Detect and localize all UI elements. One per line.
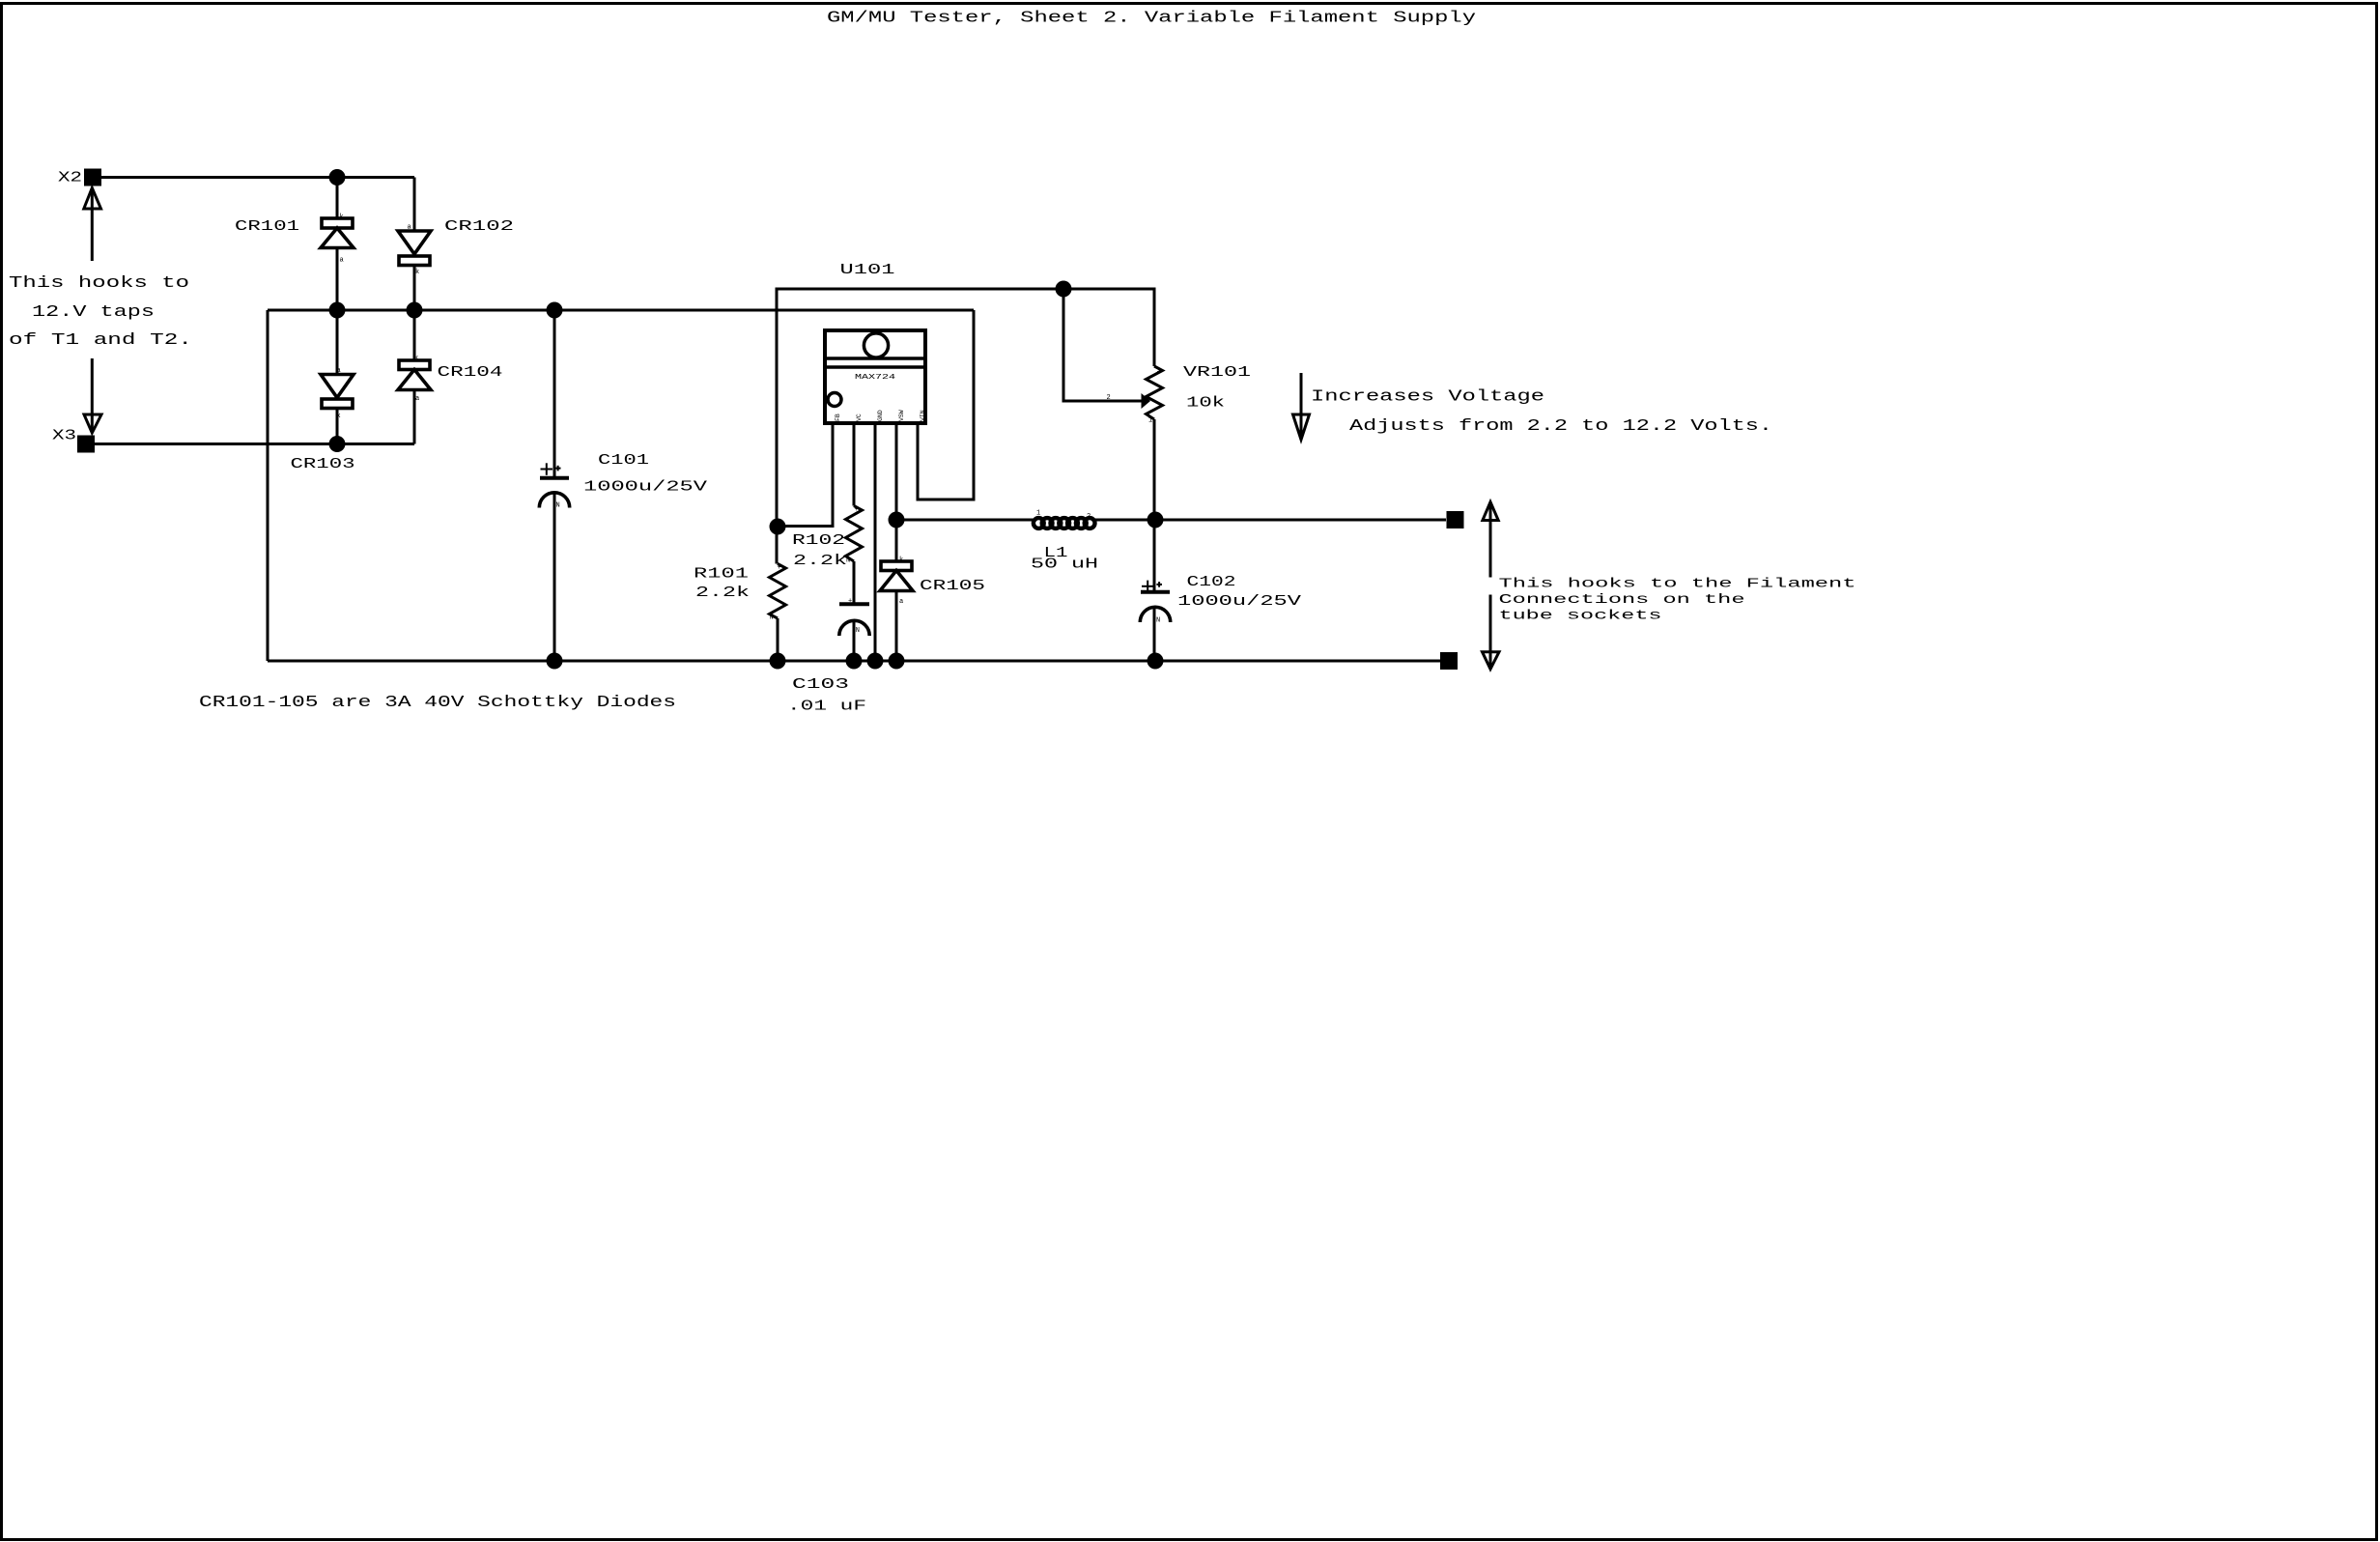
capacitor C103 (839, 604, 869, 636)
wire CR103 to X3 rail (336, 409, 339, 444)
wire U101 pin 2 lead (853, 423, 856, 506)
svg-text:1000u/25V: 1000u/25V (583, 479, 707, 496)
wire C101 bottom lead (553, 493, 556, 662)
svg-text:k: k (899, 557, 903, 564)
wire left drop to ground rail (267, 310, 269, 661)
svg-text:Adjusts from 2.2 to 12.2 Volts: Adjusts from 2.2 to 12.2 Volts. (1349, 417, 1772, 436)
wire CR101 to mid rail (336, 248, 339, 311)
svg-text:10k: 10k (1186, 395, 1225, 412)
U101 mounting hole (864, 333, 888, 357)
terminal output top (1447, 511, 1464, 528)
wire C101 top lead (553, 310, 556, 477)
svg-text:CR102: CR102 (444, 218, 514, 235)
wire U101 pin 4 to switch node (895, 423, 898, 561)
svg-text:1: 1 (1148, 417, 1152, 425)
svg-text:+: + (848, 598, 852, 606)
capacitor C101 (539, 478, 569, 508)
wire X3 rail (95, 443, 414, 445)
wire R102 to C103 (853, 561, 856, 603)
U101 pin 1 indicator circle (828, 393, 841, 407)
polarity plus marks (C101) (541, 463, 561, 475)
junction switch node (889, 512, 905, 528)
junction output node (1147, 512, 1164, 528)
diode CR102 (398, 231, 431, 266)
svg-text:k: k (415, 269, 419, 276)
svg-text:GND: GND (877, 410, 884, 421)
svg-text:2.2k: 2.2k (695, 585, 750, 601)
svg-text:N: N (856, 627, 860, 635)
svg-text:tube sockets: tube sockets (1499, 609, 1662, 624)
potentiometer VR101 (1147, 366, 1163, 419)
svg-text:CR104: CR104 (438, 364, 503, 381)
svg-text:VC: VC (856, 414, 863, 421)
diode CR103 (321, 375, 354, 409)
junction ground rail / U101 GND (867, 653, 884, 670)
svg-text:CR103: CR103 (291, 456, 355, 472)
wire CR102 to mid rail (413, 266, 416, 311)
svg-text:MAX724: MAX724 (855, 374, 895, 382)
svg-text:VR101: VR101 (1183, 364, 1251, 381)
svg-text:This hooks to: This hooks to (9, 274, 189, 293)
junction FB node (770, 519, 786, 535)
double arrow right (1483, 502, 1500, 670)
svg-text:X3: X3 (52, 428, 76, 444)
svg-text:50 uH: 50 uH (1031, 557, 1098, 573)
wire switch node to L1 (896, 519, 1034, 522)
svg-text:CR101: CR101 (235, 218, 299, 235)
wire mid rail (rectifier output) (268, 309, 974, 312)
svg-text:a: a (408, 224, 411, 232)
arrow down above X3 (84, 358, 101, 433)
wire CR104 top lead (413, 310, 416, 360)
junction ground rail / C101 (547, 653, 563, 670)
inductor L1 (1034, 518, 1095, 528)
junction mid rail / C101 (547, 302, 563, 319)
diode CR101 (321, 218, 354, 248)
wire U101 feedback loop (left vertical, top rail, right vertical to VR101) (777, 289, 1154, 564)
svg-text:2: 2 (1087, 513, 1091, 521)
svg-text:a: a (337, 367, 341, 375)
junction X2 rail / CR101 (329, 169, 346, 186)
wire top rail to VR101 wiper (1063, 289, 1142, 401)
svg-text:VIN: VIN (920, 410, 926, 421)
arrow down (increases voltage) (1293, 373, 1310, 440)
wire U101 pin 3 to ground rail (874, 423, 877, 661)
svg-text:R102: R102 (792, 532, 845, 549)
wire CR104 to X3 rail (413, 390, 416, 444)
VR101 wiper arrowhead (1142, 393, 1151, 409)
svg-text:12.V taps: 12.V taps (32, 303, 155, 322)
svg-text:.01 uF: .01 uF (787, 699, 866, 715)
svg-text:of T1 and T2.: of T1 and T2. (9, 331, 192, 350)
svg-text:k: k (340, 214, 344, 221)
svg-text:U101: U101 (840, 262, 895, 278)
junction ground rail / CR105 (889, 653, 905, 670)
wire CR103 top lead (336, 310, 339, 375)
svg-text:1: 1 (1036, 510, 1040, 518)
svg-text:Increases Voltage: Increases Voltage (1311, 388, 1544, 407)
svg-text:a: a (415, 395, 419, 403)
capacitor C102 (1140, 592, 1170, 622)
wire CR105 to ground rail (895, 591, 898, 662)
junction ground rail / C102 (1147, 653, 1164, 670)
junction ground rail / C103 (846, 653, 863, 670)
svg-text:CR101-105 are 3A 40V Schottky: CR101-105 are 3A 40V Schottky Diodes (199, 694, 676, 712)
resistor R101 (770, 564, 786, 619)
wire U101 pin 5 to input rail (918, 310, 974, 500)
svg-text:N: N (1156, 617, 1160, 625)
junction X3 rail / CR103 (329, 436, 346, 452)
wire U101 pin 1 to FB node (778, 423, 833, 527)
wire C103 to ground rail (853, 621, 856, 662)
svg-text:R101: R101 (694, 566, 749, 583)
terminal X2 (84, 169, 101, 186)
svg-text:a: a (899, 598, 903, 606)
svg-text:3: 3 (1157, 368, 1161, 376)
svg-text:X2: X2 (58, 170, 82, 186)
svg-text:N: N (770, 614, 774, 622)
wire C102 top lead (1153, 520, 1156, 590)
junction mid rail / CR102-CR104 (407, 302, 423, 319)
terminal output bottom (1440, 652, 1458, 670)
polarity plus marks (C102) (1142, 581, 1162, 592)
junction ground rail / R101 (770, 653, 786, 670)
wire L1 to output node (1093, 519, 1446, 522)
wire CR101 anode lead (336, 178, 339, 219)
wire VR101 to output node (1153, 419, 1156, 520)
svg-text:+: + (778, 564, 781, 572)
wire C102 to ground rail (1153, 608, 1156, 662)
wire CR102 top lead (413, 178, 416, 232)
diode CR105 (880, 561, 913, 591)
svg-text:CR105: CR105 (920, 578, 985, 594)
svg-text:+: + (855, 506, 859, 514)
svg-text:1000u/25V: 1000u/25V (1177, 593, 1301, 610)
svg-text:C101: C101 (598, 452, 649, 469)
svg-text:C102: C102 (1187, 574, 1236, 590)
diode CR104 (398, 360, 431, 390)
svg-text:GM/MU Tester, Sheet 2. Variabl: GM/MU Tester, Sheet 2. Variable Filament… (827, 10, 1476, 28)
junction top rail / wiper drop (1056, 281, 1072, 298)
wire R101 to ground rail (777, 618, 779, 661)
resistor R102 (846, 506, 863, 562)
terminal X3 (77, 436, 95, 453)
junction mid rail / CR101-CR103 (329, 302, 346, 319)
IC U101 body (TO-220) (825, 330, 925, 423)
wire X2 rail (101, 176, 414, 179)
arrow up below X2 (84, 188, 101, 262)
svg-text:FB: FB (835, 414, 841, 421)
svg-text:2: 2 (1107, 394, 1111, 402)
svg-text:a: a (340, 257, 344, 265)
svg-text:Connections on the: Connections on the (1499, 592, 1745, 608)
svg-text:C103: C103 (792, 676, 849, 693)
svg-text:N: N (556, 502, 560, 510)
wire bottom ground rail (268, 660, 1440, 663)
svg-text:2.2k: 2.2k (793, 553, 847, 569)
svg-text:This hooks to the Filament: This hooks to the Filament (1499, 577, 1856, 592)
svg-text:k: k (414, 355, 418, 362)
svg-text:VSW: VSW (898, 410, 905, 421)
